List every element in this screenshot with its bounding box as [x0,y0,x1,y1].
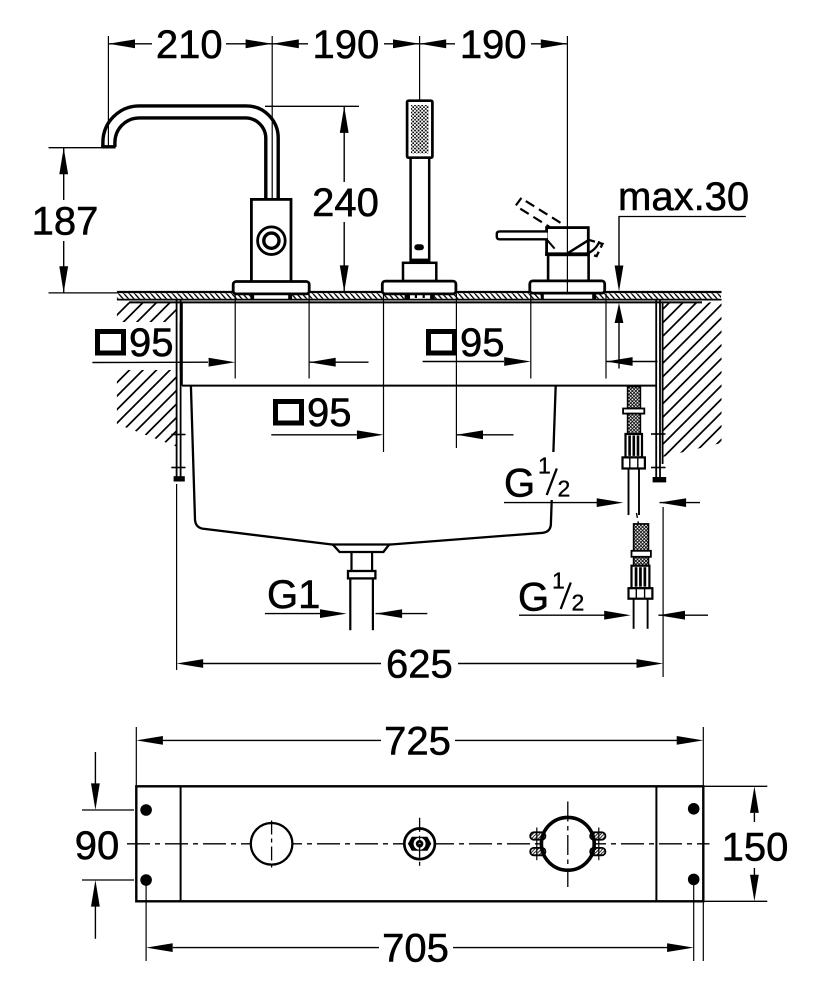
svg-text:190: 190 [460,23,527,67]
mixer centerline extension [566,36,568,292]
hand shower handle slot [414,244,424,250]
spout hole vertical centerline [271,821,273,868]
spout tube inner line [115,118,266,199]
max.30 label [615,175,750,369]
svg-text:G1: G1 [267,573,320,617]
mixer body [548,255,589,281]
G 1/2 lower label [514,566,592,620]
hose dashed continuation [637,513,639,524]
svg-text:1: 1 [552,568,565,594]
lower flex hose knurled fitting [632,566,650,589]
705 left extension line [145,884,147,961]
hand shower hole outer circle [404,829,435,860]
mixer clamp lug top-right [590,828,605,845]
mixer lever arm [497,231,548,239]
deck hole white gap under hand shower with shank bars [405,293,435,300]
svg-text:2: 2 [558,476,571,502]
90 reference tick bottom [82,879,134,881]
deck hole white gap under mixer with shank bars [541,293,596,300]
hand shower hole extension lines [383,294,385,453]
svg-text:90: 90 [75,824,120,868]
mixer head bottom thick edge [545,252,590,256]
mixer head diagonal [566,240,588,254]
spout ring inner [264,233,279,248]
hand shower flange [382,281,456,294]
705 right extension line [693,884,695,961]
hand shower centerline extension [419,36,421,101]
square 95 label spout [88,321,181,370]
mixer lever dashed raised position [516,198,561,231]
spout hole circle [251,823,293,865]
187 top reference line [49,147,104,149]
G1 label [265,573,427,618]
dim line 150 [750,786,759,901]
mixer hole vertical centerline [567,802,569,888]
square 95 label mixer [421,321,506,365]
svg-text:2: 2 [572,590,585,616]
mounting hole dot bottom-left [140,874,152,886]
svg-text:max.30: max.30 [618,175,749,219]
drain tailpipe [350,578,373,630]
svg-text:187: 187 [32,200,99,244]
725 right extension line [702,727,704,961]
hand shower handle dark band [410,259,430,263]
left mounting rod [171,300,185,482]
svg-text:G: G [518,576,549,620]
spout tube outer line [103,106,278,200]
dim line 725 [136,736,703,745]
dim line spout hole 95 [92,358,368,367]
dim line 190 second [420,39,568,48]
90 reference tick top [82,809,134,811]
extension line 190 hand shower tick is shower centerline; top dim line 210 [108,39,272,48]
dim line 240 vertical [340,106,349,292]
plate inner line right [655,786,657,901]
625 right extension line [662,507,664,677]
dim line 190 first [272,39,419,48]
spout hole extension lines [234,294,236,379]
dim line mixer hole 95 [423,357,658,366]
svg-text:705: 705 [382,927,449,971]
svg-text:625: 625 [386,643,453,687]
spout flange [233,282,309,294]
hand shower hole vertical centerline [419,818,421,869]
mixer hole extension lines [530,294,532,379]
725 left extension line [135,727,137,786]
mixer hole circle [541,817,594,870]
upper flex hose braid [623,387,644,434]
240 top extension line [265,105,359,107]
dim line 187 vertical [59,148,68,293]
square 95 label hand shower [266,391,356,435]
plan horizontal centerline [127,843,710,845]
hand shower head spray pattern [411,105,429,154]
lower flex hose braid [632,524,651,566]
plate outline [136,786,703,901]
svg-text:95: 95 [129,321,174,365]
625 left extension line [176,484,178,670]
fascia bottom line [182,385,657,387]
upper flex hose tube [629,469,640,516]
svg-text:210: 210 [156,23,223,67]
deck tile bottom line [117,299,722,301]
mixer clamp lug bottom-right [590,843,605,860]
svg-text:725: 725 [384,719,451,763]
svg-text:190: 190 [313,23,380,67]
lower flex hose hex nut [629,588,653,599]
dim line 625 [177,659,663,668]
fascia left edge [181,302,183,385]
dim line G 1/2 upper [504,498,700,507]
left wall hatch [117,302,176,446]
mounting hole dot bottom-right [688,874,700,886]
mixer pivot arc [584,241,600,255]
187 bottom reference line [49,292,118,294]
dim line G 1/2 lower [519,611,708,620]
hand shower screw hex [408,837,431,851]
basin outline [191,386,556,545]
right mounting rod [651,300,666,482]
deck hole white gap under spout with shank bars [250,293,292,300]
upper flex hose hex nut [623,457,645,468]
svg-text:G: G [504,462,535,506]
G 1/2 upper label [500,452,578,506]
svg-text:95: 95 [307,391,352,435]
spout tip cap [101,145,115,148]
svg-text:240: 240 [312,181,379,225]
dim line 705 [146,943,694,952]
mixer clamp lug bottom-left [530,843,545,860]
deck board bottom line [129,301,702,303]
mixer dashed tilted square [582,240,603,257]
hand shower head [407,101,432,158]
dim line hand shower hole 95 [271,430,513,439]
mixer head box [547,228,589,255]
mounting hole dot top-left [140,804,152,816]
mixer flange [530,281,605,293]
spout centerline extension [271,36,273,199]
extension line 210 left tick [107,36,109,146]
mounting hole dot top-right [688,803,700,815]
svg-text:1: 1 [538,453,551,479]
hand shower holder [403,263,436,281]
mixer clamp lug top-left [530,828,545,845]
150 extension line bottom [703,900,767,902]
deck top line [117,291,722,293]
deck tile hatch band [117,293,721,299]
svg-text:95: 95 [460,321,505,365]
plate inner line left [180,786,182,901]
hand shower handle [411,158,430,261]
drain neck [352,552,373,571]
upper flex hose knurled fitting [626,434,643,457]
mixer lever wedge line [547,240,554,248]
drain trapezoid [333,545,389,553]
lower flex hose tube [634,599,648,629]
hand shower screw rings [415,839,425,849]
drain collar [348,571,375,578]
spout ring outer [258,227,286,255]
right wall hatch [663,302,722,464]
dim 90 arrows [91,752,100,939]
spout body [251,199,291,282]
150 extension line top [703,785,767,787]
svg-text:150: 150 [722,826,789,870]
